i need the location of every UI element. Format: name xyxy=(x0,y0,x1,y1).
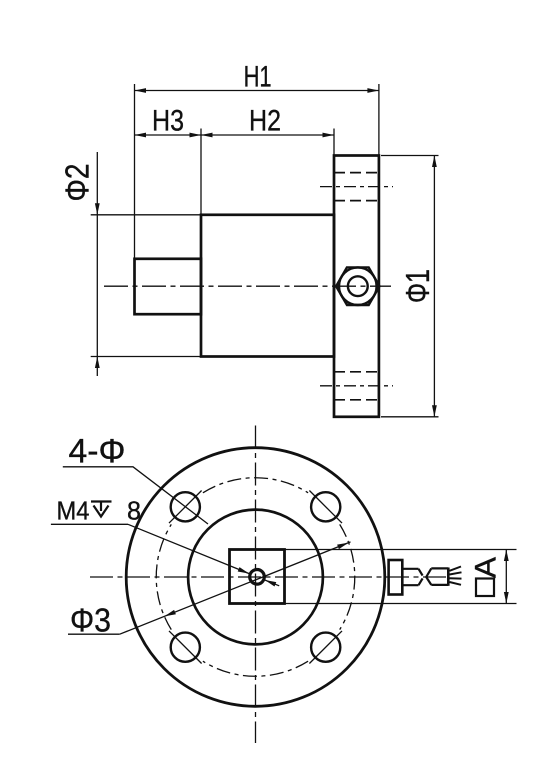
svg-text:H2: H2 xyxy=(249,105,281,138)
center M4 tapped hole circle xyxy=(250,570,265,585)
svg-text:4-Φ: 4-Φ xyxy=(69,433,126,471)
dimension Phi1 line xyxy=(433,156,435,417)
connector stem xyxy=(402,568,418,570)
dimension Phi2 line with outside arrows xyxy=(96,152,98,376)
extension lines for H dimensions xyxy=(134,84,136,259)
dimension Phi2 extension lines xyxy=(91,214,201,216)
body inner circle xyxy=(188,510,323,645)
horizontal centerline of side view xyxy=(104,285,391,287)
dimension H1 xyxy=(135,90,379,92)
connector flange rect xyxy=(389,560,403,595)
label square A (rotated) xyxy=(470,557,503,578)
cable segment with break xyxy=(426,568,431,577)
hidden bolt hole (bottom) dashed lines in flange xyxy=(334,371,379,373)
hidden bolt hole (top) dashed lines in flange xyxy=(334,172,379,174)
side view flange (right) xyxy=(334,156,379,417)
center square boss xyxy=(230,550,285,604)
frayed wires xyxy=(450,567,462,571)
flange outer circle xyxy=(126,448,385,707)
bottom view horizontal centerline xyxy=(90,576,447,578)
depth symbol xyxy=(91,500,112,502)
svg-text:H1: H1 xyxy=(244,61,272,94)
opposite-side arrow at center hole xyxy=(265,580,279,586)
dimension square-A line xyxy=(505,550,507,604)
square-A dimension extension lines xyxy=(285,549,517,551)
svg-text:A: A xyxy=(470,557,503,578)
svg-text:H3: H3 xyxy=(152,105,184,138)
center line of top hidden hole xyxy=(320,186,393,188)
side view shaft boss (left small cylinder) xyxy=(135,259,202,314)
dimension Phi1 extension lines xyxy=(381,155,439,157)
hex nut cable gland on flange xyxy=(336,267,379,305)
dimension H3 xyxy=(135,134,202,136)
svg-text:Φ2: Φ2 xyxy=(59,164,96,202)
svg-text:Φ3: Φ3 xyxy=(70,602,111,639)
svg-text:8: 8 xyxy=(127,496,141,526)
bottom view vertical centerline xyxy=(255,426,257,744)
dimension H2 xyxy=(201,134,334,136)
svg-text:Φ1: Φ1 xyxy=(399,269,436,303)
svg-text:M4: M4 xyxy=(57,496,90,526)
4 bolt holes with bolt-circle tangent dashes xyxy=(171,492,200,521)
side view body of sensor: main cylinder xyxy=(201,215,334,357)
center line of bottom hidden hole xyxy=(320,385,393,387)
bolt circle (dash-dot) xyxy=(203,661,308,676)
